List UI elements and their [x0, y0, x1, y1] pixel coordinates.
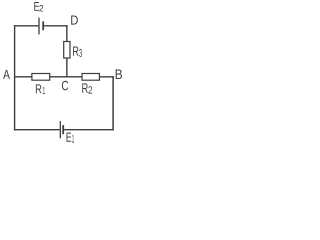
label R3 [73, 47, 82, 57]
node C [62, 81, 68, 91]
node B [116, 70, 122, 80]
wire bottom right segment E1 to B-side [64, 129, 114, 131]
wire top right segment E2 to D [44, 25, 67, 27]
wire R1 to R2 through node C [50, 76, 83, 78]
wire D down to R3 [66, 25, 68, 41]
label R2 [82, 83, 92, 93]
label R1 [36, 84, 45, 93]
resistor R2 [82, 74, 99, 81]
wire R2 to B [99, 76, 114, 78]
wire bottom left segment to E1 [14, 129, 60, 131]
wire R3 to node C [66, 58, 68, 78]
battery E2 [39, 18, 43, 35]
wire right vertical B-side [112, 76, 114, 130]
wire A to R1 [15, 76, 32, 78]
battery E1 [60, 121, 63, 138]
wire left vertical A-side [14, 25, 16, 130]
wire top left segment to E2 [14, 25, 39, 27]
node A [3, 70, 10, 79]
label E1 [67, 133, 75, 143]
resistor R3 [64, 42, 70, 59]
label E2 [34, 2, 43, 11]
resistor R1 [32, 74, 50, 81]
node D [71, 16, 78, 25]
